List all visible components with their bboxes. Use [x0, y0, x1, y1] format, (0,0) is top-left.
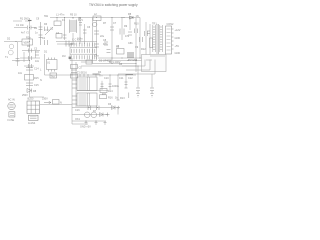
svg-text:C12: C12 — [128, 77, 133, 80]
svg-text:TNY: TNY — [51, 76, 56, 79]
svg-text:1N: 1N — [136, 15, 139, 18]
svg-text:22u: 22u — [100, 35, 105, 38]
svg-text:10n: 10n — [18, 72, 23, 75]
svg-text:C15: C15 — [34, 84, 39, 87]
svg-text:R2b: R2b — [26, 37, 31, 40]
svg-text:R13: R13 — [120, 97, 125, 100]
svg-text:4x1N4: 4x1N4 — [28, 122, 36, 125]
svg-text:R10: R10 — [134, 23, 139, 26]
svg-text:4n7 Y2: 4n7 Y2 — [21, 32, 29, 35]
svg-text:R5 10: R5 10 — [70, 14, 77, 17]
svg-text:FUSE: FUSE — [8, 119, 15, 122]
svg-text:230V: 230V — [42, 98, 48, 101]
svg-text:B250: B250 — [28, 98, 34, 101]
svg-text:R1 2M2: R1 2M2 — [20, 18, 29, 21]
svg-text:T2 EE16: T2 EE16 — [77, 72, 87, 75]
svg-text:C C C C: C C C C — [72, 39, 82, 42]
svg-text:AC IN: AC IN — [8, 99, 15, 102]
svg-text:GND: GND — [175, 52, 181, 55]
svg-text:CON2: CON2 — [167, 23, 175, 26]
svg-text:TNY264 ic switching power su: TNY264 ic switching power supply — [89, 3, 138, 7]
svg-text:R12: R12 — [141, 48, 146, 51]
svg-text:1000u: 1000u — [112, 85, 120, 88]
svg-text:+12V: +12V — [175, 29, 181, 32]
svg-text:C16: C16 — [75, 109, 80, 112]
svg-text:R14: R14 — [108, 90, 113, 93]
svg-text:SW: SW — [44, 15, 49, 18]
svg-text:C10: C10 — [104, 77, 109, 80]
svg-text:TR1: TR1 — [152, 23, 157, 26]
svg-text:R15: R15 — [34, 77, 39, 80]
svg-text:GND: GND — [175, 37, 181, 40]
svg-text:R16: R16 — [108, 97, 113, 100]
svg-text:1M: 1M — [62, 55, 65, 58]
svg-text:10n: 10n — [35, 60, 40, 63]
svg-text:N: N — [40, 79, 42, 82]
svg-text:C8b: C8b — [128, 42, 133, 45]
svg-text:C11: C11 — [119, 77, 124, 80]
svg-text:250V: 250V — [22, 94, 28, 97]
svg-text:GND +5V: GND +5V — [80, 126, 91, 129]
svg-text:+5V: +5V — [175, 45, 180, 48]
svg-text:C8a: C8a — [94, 55, 99, 58]
svg-text:C1 10n: C1 10n — [16, 24, 25, 27]
svg-text:N: N — [60, 102, 62, 105]
svg-text:BR1 400V: BR1 400V — [109, 61, 121, 64]
svg-text:R7b: R7b — [103, 43, 108, 46]
svg-text:C14: C14 — [34, 68, 39, 71]
svg-text:R11: R11 — [102, 93, 107, 96]
svg-text:OK1: OK1 — [75, 118, 81, 121]
svg-text:L1 47m: L1 47m — [56, 14, 64, 17]
